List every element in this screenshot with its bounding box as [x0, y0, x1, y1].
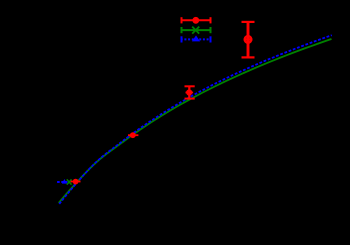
red data point P3 circle marker: [186, 89, 192, 95]
legend entry 2 X marker: [192, 27, 199, 34]
legend entry 2 green line: [181, 29, 212, 31]
red data point P4 bottom cap: [242, 56, 255, 58]
legend entry 2 right cap: [210, 27, 212, 33]
legend entry 1 circle marker: [192, 17, 199, 24]
blue data point x-error bar (dashed): [57, 181, 67, 183]
red data point P3 top cap: [185, 85, 195, 87]
legend entry 3 triangle marker: [192, 35, 200, 41]
legend entry 1 left cap: [181, 17, 183, 23]
legend entry 3 left cap: [181, 36, 183, 42]
red data point P4 x-error bar: [244, 38, 253, 41]
red data point P4 open circle marker: [245, 36, 252, 43]
blue data point triangle marker: [62, 179, 67, 184]
red data point P2 circle marker: [130, 132, 136, 138]
red data point P1 x-error bar: [71, 181, 81, 183]
red data point P3 x-error bar: [186, 92, 194, 94]
red data point P4 y-error bar: [247, 22, 250, 58]
red data point P4 top cap: [242, 21, 255, 23]
red data point P2 x-error bar: [128, 134, 138, 136]
legend entry 3 right cap: [210, 36, 212, 42]
red data point P3 y-error bar: [188, 86, 190, 98]
legend entry 1 right cap: [210, 17, 212, 23]
green solid fit curve: [59, 39, 332, 203]
green data point X marker: [67, 179, 72, 184]
blue dashed fit curve: [59, 35, 332, 204]
legend entry 3 blue dashed line: [181, 38, 212, 40]
red data point P1 circle marker: [73, 179, 79, 185]
legend entry 2 left cap: [181, 27, 183, 33]
legend entry 1 red line: [181, 19, 212, 21]
red data point P3 bottom cap: [185, 98, 195, 100]
